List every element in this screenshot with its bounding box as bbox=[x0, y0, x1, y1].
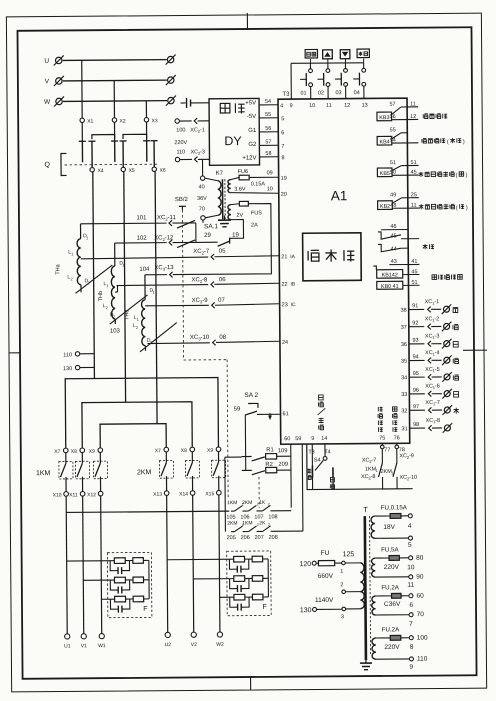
svg-text:95: 95 bbox=[413, 371, 419, 377]
snubber right bus bbox=[267, 559, 269, 597]
svg-text:2V: 2V bbox=[236, 213, 243, 219]
wire 130 to phase A line bbox=[80, 366, 94, 368]
svg-text:X5: X5 bbox=[129, 168, 135, 174]
svg-text:-10: -10 bbox=[200, 335, 209, 341]
svg-text:70: 70 bbox=[199, 206, 205, 212]
svg-text:70: 70 bbox=[417, 611, 425, 618]
svg-text:97: 97 bbox=[413, 404, 419, 410]
svg-text:04: 04 bbox=[354, 90, 360, 96]
wire tap phase W down to X3 bbox=[145, 101, 147, 118]
svg-text:KB2: KB2 bbox=[380, 204, 390, 210]
svg-text:44: 44 bbox=[391, 246, 397, 252]
svg-text:61: 61 bbox=[282, 411, 288, 417]
relay KB0 contact 41 bbox=[377, 280, 420, 290]
power supply unit DY box bbox=[209, 98, 260, 165]
svg-text:KB5: KB5 bbox=[380, 171, 390, 177]
svg-text:34: 34 bbox=[401, 375, 407, 381]
snubber network F for 1KM bbox=[107, 552, 152, 617]
svg-text:W1: W1 bbox=[98, 643, 106, 649]
svg-text:207: 207 bbox=[255, 535, 264, 541]
svg-text:FU,5A: FU,5A bbox=[381, 546, 399, 553]
annotation protection contact (spare) bbox=[422, 139, 427, 144]
K7 secondary 2V winding bbox=[228, 205, 231, 220]
svg-text:102: 102 bbox=[137, 236, 148, 242]
SB/2 dashed mechanical link bbox=[182, 210, 183, 360]
svg-text:X11: X11 bbox=[69, 492, 78, 498]
THa polarity diagonal bbox=[75, 265, 112, 293]
svg-text:5: 5 bbox=[408, 542, 412, 549]
svg-text:G2: G2 bbox=[248, 142, 257, 148]
A1 vertical label low-speed-run bbox=[378, 407, 382, 412]
svg-text:2: 2 bbox=[136, 326, 138, 330]
svg-text:101: 101 bbox=[136, 215, 147, 221]
svg-text:F: F bbox=[262, 604, 266, 611]
svg-text:59: 59 bbox=[295, 436, 301, 442]
A1 output pin 32 net 97 connector XC1-7 bbox=[401, 400, 452, 415]
svg-text:110: 110 bbox=[176, 149, 185, 155]
wire to A1 pin 20, node 10 bbox=[231, 192, 279, 193]
svg-text:90: 90 bbox=[416, 574, 424, 581]
motor terminal U1 bbox=[65, 634, 70, 639]
button QueDing (confirm) bbox=[357, 49, 369, 58]
terminal X1 bbox=[80, 118, 84, 122]
wire T3 bbox=[311, 444, 313, 465]
svg-text:T: T bbox=[363, 505, 368, 514]
wire to motor terminal U1 bbox=[65, 512, 68, 634]
svg-text:1K: 1K bbox=[259, 500, 266, 506]
svg-text:X3: X3 bbox=[151, 118, 157, 124]
svg-text:37: 37 bbox=[401, 325, 407, 331]
svg-text:1: 1 bbox=[71, 252, 73, 256]
button SB/2 symbol bbox=[179, 205, 186, 207]
isolator Q pole 1 blades bbox=[81, 122, 83, 141]
svg-text:-5V: -5V bbox=[247, 114, 256, 120]
svg-text:1KM: 1KM bbox=[36, 470, 51, 477]
relay KB5 bbox=[377, 160, 418, 177]
svg-text:08: 08 bbox=[219, 335, 226, 341]
wire to motor terminal W2 bbox=[218, 511, 221, 632]
ground at SA.1 bbox=[223, 216, 225, 220]
svg-text:94: 94 bbox=[413, 354, 419, 360]
interlock chain row 2 nodes 205-208 bbox=[231, 531, 234, 533]
svg-text:X10: X10 bbox=[53, 492, 62, 498]
SA.1 blade bbox=[218, 241, 230, 246]
phase V incoming breaker symbol left bbox=[54, 76, 64, 86]
svg-text:X6: X6 bbox=[160, 168, 166, 174]
contactor 1KM pole 2 X8/X11 bbox=[69, 448, 90, 512]
svg-text:03: 03 bbox=[335, 90, 341, 96]
svg-text:36V: 36V bbox=[197, 196, 207, 202]
svg-text:X14: X14 bbox=[179, 491, 188, 497]
annotation char 通 bbox=[453, 375, 458, 380]
relay KB4 bbox=[377, 127, 418, 145]
svg-text:10: 10 bbox=[267, 186, 273, 192]
svg-text:THa: THa bbox=[55, 263, 61, 274]
K7 primary terminal top bbox=[200, 176, 204, 180]
svg-text:96: 96 bbox=[413, 388, 419, 394]
K7 core bbox=[221, 179, 223, 219]
svg-text:13: 13 bbox=[362, 103, 368, 109]
svg-text:40: 40 bbox=[199, 184, 205, 190]
svg-text:3: 3 bbox=[341, 614, 344, 620]
svg-text:8: 8 bbox=[410, 644, 414, 651]
svg-text:X9: X9 bbox=[207, 448, 213, 454]
svg-text:56: 56 bbox=[265, 126, 271, 132]
wire phase U horizontal bbox=[63, 59, 167, 62]
svg-text:205: 205 bbox=[227, 535, 236, 541]
svg-text:36: 36 bbox=[401, 342, 407, 348]
node 125 bbox=[335, 562, 342, 564]
svg-text:5: 5 bbox=[281, 116, 284, 122]
svg-text:1: 1 bbox=[153, 291, 155, 295]
svg-text:06: 06 bbox=[219, 277, 226, 283]
T secondary bottom wire bbox=[376, 614, 409, 616]
svg-text:R1: R1 bbox=[266, 447, 273, 453]
svg-text:12: 12 bbox=[344, 103, 350, 109]
svg-text:THb: THb bbox=[98, 291, 104, 301]
svg-text:+5V: +5V bbox=[245, 100, 256, 106]
fold mark top bbox=[246, 13, 248, 29]
svg-text:2: 2 bbox=[340, 582, 343, 588]
interlock chain row 1 nodes 105-108 bbox=[231, 510, 234, 512]
svg-text:2: 2 bbox=[257, 523, 259, 527]
K7 secondary 3.6V winding bbox=[228, 180, 231, 193]
svg-text:49: 49 bbox=[390, 192, 396, 198]
contactor 1KM pole 1 X7/X10 bbox=[52, 448, 73, 512]
svg-text:0.15A: 0.15A bbox=[251, 181, 266, 187]
branch R1 109 bbox=[242, 447, 291, 461]
svg-text:18V: 18V bbox=[383, 524, 395, 531]
svg-text:21: 21 bbox=[281, 254, 287, 260]
svg-text:X15: X15 bbox=[205, 491, 214, 497]
label manual (ShouDong) bbox=[307, 469, 311, 474]
primary winding 1140V section bbox=[360, 592, 364, 609]
svg-text:60: 60 bbox=[416, 593, 424, 600]
wire A1 pin 60 down through branches to interlock chain bbox=[290, 444, 292, 507]
svg-text:1: 1 bbox=[375, 468, 378, 473]
snubber row 1 bbox=[167, 556, 268, 573]
svg-text:11: 11 bbox=[410, 101, 416, 107]
svg-text:6: 6 bbox=[409, 602, 413, 609]
svg-text:25: 25 bbox=[411, 192, 417, 198]
annotation char 线 bbox=[453, 408, 459, 414]
SA-2 blade bbox=[245, 411, 257, 415]
svg-text:F: F bbox=[143, 606, 147, 613]
svg-text:55: 55 bbox=[265, 112, 271, 118]
svg-text:51: 51 bbox=[411, 160, 417, 166]
svg-text:1140V: 1140V bbox=[315, 597, 334, 604]
T secondary C36V winding bbox=[372, 596, 376, 615]
svg-text:103: 103 bbox=[110, 329, 121, 335]
spare contacts 46 45 44 bbox=[378, 224, 419, 253]
svg-text:4: 4 bbox=[280, 103, 283, 109]
display panel chinese label XianShiPing bbox=[308, 250, 319, 261]
svg-text:X4: X4 bbox=[98, 168, 104, 174]
wire bus down to A1 pin 9 bbox=[290, 63, 292, 99]
T secondary terminal top bbox=[409, 636, 413, 640]
svg-text:01: 01 bbox=[300, 91, 306, 97]
svg-text:-3: -3 bbox=[200, 149, 205, 155]
wire to motor terminal V1 bbox=[82, 512, 85, 634]
svg-text:9: 9 bbox=[409, 664, 413, 671]
auto contact bar bbox=[332, 467, 334, 477]
A1 output pin 31 net 98 connector XC1-8 bbox=[401, 418, 452, 433]
svg-text:130: 130 bbox=[63, 366, 72, 372]
svg-text:2A: 2A bbox=[251, 222, 258, 228]
svg-text:220V: 220V bbox=[384, 644, 400, 651]
svg-text:11: 11 bbox=[407, 582, 414, 589]
svg-text:-13: -13 bbox=[165, 265, 174, 271]
current transformer THa bbox=[55, 224, 90, 293]
svg-text:-12: -12 bbox=[165, 235, 174, 241]
svg-text:24: 24 bbox=[282, 340, 288, 346]
svg-text:FU,0.15A: FU,0.15A bbox=[381, 504, 408, 511]
svg-text:12: 12 bbox=[410, 114, 416, 120]
svg-text:2: 2 bbox=[113, 315, 115, 319]
svg-text:110: 110 bbox=[417, 656, 428, 663]
svg-text:-4: -4 bbox=[435, 350, 440, 356]
svg-text:1: 1 bbox=[137, 318, 139, 322]
svg-text:33: 33 bbox=[401, 392, 407, 398]
snubber row 2 bbox=[193, 576, 268, 593]
snubber row 1 bbox=[67, 558, 149, 575]
svg-text:76: 76 bbox=[394, 435, 400, 441]
wire K7 top to 110 input line bbox=[202, 159, 204, 176]
wire to motor terminal V2 bbox=[192, 511, 195, 632]
phase W incoming breaker symbol left bbox=[54, 96, 64, 106]
terminal enclosure below A1 bbox=[307, 443, 413, 489]
wire 43 / 41 bbox=[389, 264, 408, 266]
snubber row 2 bbox=[83, 577, 149, 594]
T secondary bottom wire bbox=[376, 658, 409, 660]
wire tap phase U down to X1 bbox=[81, 60, 83, 118]
terminal X3 bbox=[144, 118, 148, 122]
svg-text:125: 125 bbox=[343, 551, 355, 558]
wire phase V horizontal bbox=[63, 79, 167, 82]
svg-text:X7: X7 bbox=[54, 449, 60, 455]
svg-text:FU,2A: FU,2A bbox=[382, 626, 400, 633]
A1 output pin 34 net 95 connector XC1-5 bbox=[401, 367, 452, 382]
svg-text:IA: IA bbox=[290, 254, 295, 260]
snubber right bus bbox=[148, 560, 150, 598]
svg-text:91: 91 bbox=[412, 303, 418, 309]
svg-text:09: 09 bbox=[267, 170, 273, 176]
annotation double-star start output high bbox=[419, 172, 424, 177]
svg-text:2KM: 2KM bbox=[137, 469, 152, 476]
wire 130 to primary tap 3 bbox=[317, 608, 343, 610]
svg-text:(: ( bbox=[456, 173, 458, 179]
T secondary terminal top bbox=[408, 514, 412, 518]
wire feeder phase C to 1KM X9 and 2KM X7 bbox=[100, 424, 166, 448]
fold mark left bbox=[9, 352, 20, 354]
svg-text:DY: DY bbox=[224, 134, 242, 148]
svg-text:T3: T3 bbox=[282, 92, 290, 98]
svg-text:): ) bbox=[463, 139, 465, 145]
switch S4 bbox=[323, 456, 327, 460]
svg-text:U1: U1 bbox=[64, 643, 71, 649]
svg-text:-3: -3 bbox=[434, 333, 439, 339]
svg-text:58: 58 bbox=[265, 151, 271, 157]
T secondary bottom wire bbox=[375, 537, 408, 539]
A1 vertical label auto/manual bbox=[319, 395, 324, 400]
annotation spare (BeiYong) bbox=[423, 244, 428, 249]
annotation char 接 bbox=[453, 324, 458, 329]
svg-text:3.6V: 3.6V bbox=[234, 187, 246, 193]
svg-text:X12: X12 bbox=[87, 492, 96, 498]
annotation char 八 bbox=[453, 342, 458, 347]
terminal X5 bbox=[121, 167, 125, 171]
T secondary 220V winding bbox=[372, 638, 376, 659]
T secondary bottom wire bbox=[375, 576, 408, 578]
svg-text:130: 130 bbox=[300, 607, 312, 614]
T secondary terminal top bbox=[409, 556, 413, 560]
svg-text:10: 10 bbox=[309, 103, 315, 109]
manual contact bar bbox=[311, 465, 313, 477]
svg-text:-1: -1 bbox=[434, 299, 439, 305]
svg-text:): ) bbox=[466, 173, 468, 179]
THb polarity diagonal bbox=[110, 295, 148, 324]
svg-text:108: 108 bbox=[268, 514, 277, 520]
annotation high/low speed switch bbox=[432, 275, 437, 280]
svg-text:110: 110 bbox=[63, 352, 72, 358]
svg-text:): ) bbox=[466, 205, 468, 211]
motor terminal U2 bbox=[165, 632, 170, 637]
wire 2V winding to SA.1 contact 19 bbox=[229, 220, 243, 239]
svg-text:55: 55 bbox=[390, 127, 396, 133]
terminal X6 bbox=[152, 167, 156, 171]
wire node125 to primary tap 1 bbox=[345, 562, 360, 564]
wire 110 to phase A line bbox=[80, 353, 94, 355]
motor terminal V2 bbox=[191, 632, 196, 637]
svg-text:7: 7 bbox=[281, 144, 284, 150]
svg-text:45: 45 bbox=[411, 170, 417, 176]
DY input terminal 100 XC2-1 bbox=[175, 119, 179, 123]
svg-text:57: 57 bbox=[265, 139, 271, 145]
svg-text:IC: IC bbox=[291, 302, 296, 308]
relay KB1 contact 42 bbox=[373, 266, 419, 279]
svg-text:75: 75 bbox=[379, 435, 385, 441]
wire tap phase V down to X2 bbox=[113, 81, 115, 118]
svg-text:-9: -9 bbox=[202, 298, 208, 304]
motor terminal W2 bbox=[217, 632, 222, 637]
svg-text:77: 77 bbox=[384, 447, 390, 453]
annotation double-star start output low bbox=[419, 204, 424, 209]
isolator Q jumper pole2-pole3 bbox=[123, 134, 147, 139]
svg-text:60: 60 bbox=[284, 436, 290, 442]
svg-text:1: 1 bbox=[86, 236, 88, 240]
svg-text:93: 93 bbox=[412, 338, 418, 344]
svg-text:SA.1: SA.1 bbox=[204, 223, 219, 230]
svg-text:V1: V1 bbox=[81, 643, 87, 649]
svg-text:SA 2: SA 2 bbox=[244, 392, 258, 399]
annotation char 泵 bbox=[453, 308, 458, 313]
K7 primary terminal bottom bbox=[201, 216, 205, 220]
svg-text:54: 54 bbox=[265, 99, 271, 105]
A1 output pin 33 net 96 connector XC1-6 bbox=[401, 383, 452, 398]
wire SA-2 to A1 pin 61 bbox=[257, 413, 280, 415]
svg-text:2: 2 bbox=[257, 502, 259, 506]
phase W breaker symbol right bbox=[166, 96, 176, 106]
svg-text:1: 1 bbox=[106, 284, 108, 288]
svg-text:11: 11 bbox=[411, 203, 417, 209]
svg-text:2K: 2K bbox=[259, 520, 266, 526]
primary winding 660V section bbox=[360, 563, 364, 592]
svg-text:43: 43 bbox=[391, 259, 397, 265]
svg-text:W2: W2 bbox=[216, 642, 224, 648]
svg-text:38: 38 bbox=[401, 308, 407, 314]
svg-text:2: 2 bbox=[268, 523, 270, 527]
button common bus wire bbox=[291, 62, 364, 65]
contactor 2KM pole 3 X9/X15 bbox=[205, 447, 226, 511]
contactor 2KM pole 1 X7/X13 bbox=[153, 447, 174, 511]
svg-text:11: 11 bbox=[326, 103, 332, 109]
svg-text:100: 100 bbox=[176, 127, 185, 133]
A1 output pin 35 net 94 connector XC1-4 bbox=[401, 350, 452, 365]
svg-text:20: 20 bbox=[281, 192, 287, 198]
button up arrow bbox=[323, 50, 333, 59]
svg-text:KB3: KB3 bbox=[379, 115, 389, 121]
svg-text:X8: X8 bbox=[71, 449, 77, 455]
terminal X4 bbox=[90, 168, 94, 172]
svg-text:Q: Q bbox=[45, 162, 51, 169]
svg-text:-7: -7 bbox=[204, 249, 210, 255]
wire 75->77 with contact 1KM1 bbox=[378, 443, 390, 489]
svg-text:29: 29 bbox=[204, 233, 211, 239]
wire to A1 pin 19, node 09 bbox=[249, 176, 278, 178]
arrow on wire 61 bbox=[268, 415, 272, 420]
svg-text:660V: 660V bbox=[318, 573, 334, 580]
transformer T core bbox=[365, 516, 366, 660]
svg-text:59: 59 bbox=[234, 407, 241, 413]
svg-text:-9: -9 bbox=[409, 453, 414, 459]
svg-text:31: 31 bbox=[401, 426, 407, 432]
svg-text:45: 45 bbox=[411, 269, 417, 275]
wire A1 pin 59 down to interlock chain row2 bbox=[301, 444, 304, 531]
svg-text:120: 120 bbox=[299, 561, 311, 568]
isolator Q pole 2 blades bbox=[114, 122, 116, 141]
wire feeder phase B to 1KM X8 and 2KM X8 bbox=[82, 402, 192, 448]
svg-text:X9: X9 bbox=[89, 449, 95, 455]
relay KB2 bbox=[378, 192, 419, 210]
contactor 1KM pole 3 X9/X12 bbox=[87, 448, 108, 512]
svg-text:X13: X13 bbox=[153, 492, 162, 498]
svg-text:G1: G1 bbox=[248, 128, 257, 134]
snubber row 3 bbox=[101, 596, 149, 613]
wire branch common to chain link bbox=[225, 456, 242, 458]
svg-text:4: 4 bbox=[408, 523, 412, 530]
svg-text:(: ( bbox=[456, 205, 458, 211]
svg-text:23: 23 bbox=[282, 302, 288, 308]
phase U breaker symbol right bbox=[166, 55, 176, 65]
current transformer THc bbox=[124, 275, 155, 351]
svg-text:X2: X2 bbox=[119, 118, 125, 124]
svg-text:56: 56 bbox=[390, 114, 396, 120]
annotation char 芯 bbox=[453, 358, 458, 363]
svg-text:22: 22 bbox=[281, 282, 287, 288]
THc polarity diagonal bbox=[140, 323, 177, 352]
svg-text:C36V: C36V bbox=[384, 601, 401, 608]
svg-text:50: 50 bbox=[390, 170, 396, 176]
button down arrow bbox=[340, 50, 350, 59]
svg-text:54: 54 bbox=[390, 138, 396, 144]
svg-text:7: 7 bbox=[409, 621, 413, 628]
button contact 1 (net 01) bbox=[300, 59, 313, 99]
phase U incoming breaker symbol left bbox=[54, 55, 64, 65]
svg-text:92: 92 bbox=[412, 320, 418, 326]
svg-text:KB0 41: KB0 41 bbox=[381, 284, 399, 290]
svg-text:K7: K7 bbox=[216, 171, 224, 177]
svg-text:FUS: FUS bbox=[251, 210, 262, 216]
